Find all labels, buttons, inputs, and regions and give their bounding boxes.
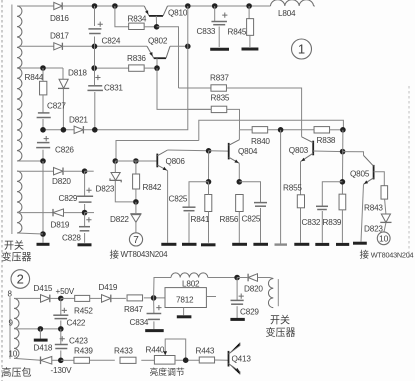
resistor R842 xyxy=(133,174,140,189)
terminal 10 circle xyxy=(377,232,390,245)
svg-text:C827: C827 xyxy=(47,102,66,111)
node row5 at D818 xyxy=(61,127,67,133)
resistor R847 xyxy=(127,295,143,301)
svg-text:1: 1 xyxy=(298,42,305,57)
wire D820 to node xyxy=(63,170,85,172)
svg-text:C826: C826 xyxy=(55,146,74,155)
svg-text:R839: R839 xyxy=(323,218,342,227)
resistor R837 xyxy=(211,85,227,91)
wire C832 bottom xyxy=(321,211,323,243)
svg-text:7: 7 xyxy=(133,235,139,246)
svg-text:2: 2 xyxy=(17,272,24,287)
svg-text:变压器: 变压器 xyxy=(266,326,296,339)
wire Q804 base rail down xyxy=(208,151,210,182)
svg-text:开关: 开关 xyxy=(4,239,24,252)
regulator U1 7812 box xyxy=(165,288,206,308)
wire D819 node stub right xyxy=(85,212,94,214)
resistor R844 xyxy=(40,81,47,95)
diode D823 (right) xyxy=(381,214,390,222)
wire C825a top xyxy=(189,182,209,207)
wire C824 bottom lead xyxy=(94,37,96,47)
svg-text:8: 8 xyxy=(8,289,13,298)
wire node280 down xyxy=(280,130,282,244)
wire rail2 D817 to Q802 xyxy=(62,45,147,47)
resistor R838 xyxy=(314,127,330,133)
wire C827 bottom lead xyxy=(42,119,44,130)
node +50V xyxy=(58,296,64,302)
svg-text:D415: D415 xyxy=(34,284,53,293)
wire C833 top lead xyxy=(214,6,216,21)
diode D820 xyxy=(54,168,64,175)
wire T1 winding1 end xyxy=(17,160,43,162)
capacitor C829 xyxy=(77,195,93,197)
node D823 top xyxy=(113,158,119,164)
ground under 7812 xyxy=(177,315,192,318)
node rail2 at vertical rail xyxy=(185,44,191,50)
wire R834 left xyxy=(115,6,129,27)
node top rail at R845 xyxy=(246,3,252,9)
transformer T1 winding lower xyxy=(17,171,22,233)
wire rail2 left xyxy=(19,45,54,47)
resistor R839 xyxy=(339,194,346,210)
wire C824 top lead xyxy=(94,6,96,26)
wire C829b bottom lead xyxy=(236,306,238,318)
node x343 y182 xyxy=(340,179,346,185)
wire Q810 base xyxy=(155,16,157,27)
wire R856 bottom lead xyxy=(238,212,240,243)
capacitor C828 xyxy=(79,226,90,228)
wire R836 right xyxy=(144,67,157,69)
node tap3 at R844 xyxy=(40,65,46,71)
wire C828 bottom lead xyxy=(84,233,86,243)
wire winding2 tap to D820 xyxy=(17,170,54,172)
wire node343 down xyxy=(341,130,344,194)
diode D816 xyxy=(54,2,62,9)
wire row5 right xyxy=(83,6,187,130)
wire R837 right to Q803 collector rail xyxy=(226,88,301,137)
transformer T1 core xyxy=(11,5,13,235)
wire D823b to terminal xyxy=(384,223,386,232)
wire R841 bottom lead xyxy=(208,212,210,243)
svg-text:7812: 7812 xyxy=(176,296,194,305)
wire C829 top lead xyxy=(84,171,86,196)
svg-text:D419: D419 xyxy=(99,283,118,292)
wire R439 to R433 xyxy=(90,359,115,361)
svg-text:D817: D817 xyxy=(50,32,69,41)
svg-text:9: 9 xyxy=(9,319,14,328)
wire top rail left xyxy=(17,5,54,7)
svg-text:R845: R845 xyxy=(228,28,247,37)
svg-text:D820: D820 xyxy=(52,177,71,186)
svg-text:R433: R433 xyxy=(114,347,133,356)
svg-text:Q806: Q806 xyxy=(166,157,186,166)
wire 7812 output stub xyxy=(206,296,216,298)
svg-text:R855: R855 xyxy=(283,184,302,193)
capacitor C834 xyxy=(147,313,162,315)
svg-text:C834: C834 xyxy=(130,318,149,327)
ground under C833 xyxy=(210,48,229,51)
diode D817 xyxy=(54,43,63,50)
node Q806 collector / Q804 base xyxy=(206,148,212,154)
wire tap3 xyxy=(19,67,63,69)
wire D418 to node xyxy=(52,359,61,361)
svg-text:C828: C828 xyxy=(62,234,81,243)
border frame xyxy=(1,0,3,381)
svg-text:D818: D818 xyxy=(68,69,87,78)
svg-text:亮度调节: 亮度调节 xyxy=(150,366,185,377)
capacitor C827 xyxy=(38,112,50,114)
wire Q802 base down to R835 row xyxy=(157,68,211,109)
inductor L802 xyxy=(171,273,208,278)
resistor R835 xyxy=(211,106,227,112)
wire R847 to node xyxy=(144,297,165,299)
node C422/C423 xyxy=(58,326,64,332)
node D819 / C828 xyxy=(82,210,88,216)
wire R834 right xyxy=(144,26,157,28)
resistor R843 xyxy=(381,186,388,199)
svg-text:C829: C829 xyxy=(59,194,78,203)
wire D822 top lead xyxy=(135,202,137,214)
svg-text:L802: L802 xyxy=(182,279,200,288)
wire Q804 base xyxy=(209,150,229,152)
wire C834 bottom lead xyxy=(153,321,155,329)
terminal 7 circle xyxy=(129,233,142,246)
wire L804 right stub xyxy=(314,5,316,7)
wire node to D820b xyxy=(237,277,248,279)
wire Q803 emitter down xyxy=(300,162,302,243)
ground under R856 xyxy=(232,243,247,246)
wire R844 to C827 xyxy=(42,95,44,113)
svg-text:Q804: Q804 xyxy=(238,147,258,156)
ground at pin9 (D418 bar) xyxy=(34,339,48,342)
wire R843 to D823b xyxy=(385,199,386,214)
transformer T1 winding upper xyxy=(17,6,22,161)
wire C833 bottom lead xyxy=(218,27,220,48)
svg-text:R856: R856 xyxy=(220,215,239,224)
wire R440 right xyxy=(175,359,199,361)
ground under R845 xyxy=(242,48,259,51)
wire R834 node to R837 rail xyxy=(157,27,179,88)
wire pin10 to D418 xyxy=(14,358,40,360)
node row5 at x43 xyxy=(40,127,46,133)
wire C828 top lead xyxy=(84,213,86,227)
wire 7812 ground stub xyxy=(183,308,185,316)
node C831 top / R836 xyxy=(91,65,97,71)
wire R837 left lead xyxy=(179,87,212,89)
wire Q805 emitter down xyxy=(361,184,364,241)
wire D820b to T3 xyxy=(258,278,274,279)
wire pin9 ground stub xyxy=(39,329,41,339)
zener D822 xyxy=(130,213,141,215)
capacitor C832 xyxy=(316,205,328,207)
wire Q806 collector xyxy=(168,149,209,152)
transistor Q803 xyxy=(312,141,314,156)
node x43 y161 xyxy=(40,158,46,164)
node R440/R443 xyxy=(183,357,189,363)
svg-text:R835: R835 xyxy=(211,94,230,103)
node Q810 base / R834 xyxy=(154,24,160,30)
transistor Q804 xyxy=(228,143,230,160)
arrow Q810 emitter xyxy=(145,10,148,14)
ground under x43 xyxy=(37,243,50,246)
svg-text:开关: 开关 xyxy=(270,314,290,327)
svg-text:C831: C831 xyxy=(104,84,123,93)
svg-text:Q803: Q803 xyxy=(289,146,309,155)
ground under R839 xyxy=(336,243,349,246)
svg-text:R452: R452 xyxy=(74,307,93,316)
node D820 / C829 xyxy=(82,168,88,174)
capacitor C825 a xyxy=(183,206,196,208)
svg-text:C422: C422 xyxy=(67,319,86,328)
wire L802 left riser xyxy=(154,278,171,298)
resistor R856 xyxy=(236,195,244,212)
wire row5 left xyxy=(43,129,74,131)
wire C825a bottom xyxy=(188,213,190,243)
arrow Q805 emitter xyxy=(364,180,368,184)
svg-text:R847: R847 xyxy=(124,305,143,314)
capacitor C825 b xyxy=(254,202,267,204)
zener D823 xyxy=(111,173,120,181)
wire C831 top lead xyxy=(94,46,96,85)
svg-text:C832: C832 xyxy=(302,218,321,227)
svg-text:+50V: +50V xyxy=(56,287,75,296)
wire Q805 collector wire xyxy=(343,152,364,156)
svg-text:R443: R443 xyxy=(196,347,215,356)
svg-text:WT8043N204: WT8043N204 xyxy=(371,251,414,260)
svg-text:C824: C824 xyxy=(102,37,121,46)
wire C829b top lead xyxy=(236,278,238,301)
wire C423 top lead xyxy=(60,329,62,344)
resistor R840 xyxy=(252,127,268,133)
wire D419 to R847 xyxy=(111,297,126,299)
wire Q805 base right xyxy=(374,172,385,186)
wire D818 bottom lead xyxy=(62,89,64,130)
node R842 top xyxy=(133,158,139,164)
wire L802 to node xyxy=(208,277,237,279)
wire D823 top lead xyxy=(114,161,116,173)
wire R433 to R440 xyxy=(141,359,154,361)
diode D821 xyxy=(74,126,83,133)
wire D823 bottom lead xyxy=(115,181,136,202)
svg-text:R841: R841 xyxy=(191,215,210,224)
node pin9 ground xyxy=(38,326,44,332)
svg-text:D819: D819 xyxy=(51,221,70,230)
wire C826 bottom lead xyxy=(42,150,44,161)
node rail2 at C824 xyxy=(92,44,98,50)
node x43 y234 xyxy=(40,231,46,237)
wire R845 bottom lead xyxy=(249,35,251,47)
node D822 top xyxy=(133,199,139,205)
diode D415 xyxy=(41,295,50,303)
terminal 2 circle xyxy=(11,270,30,289)
wire T1 winding2 end xyxy=(17,233,43,234)
ground under C832 xyxy=(315,243,329,246)
arrow Q804 emitter xyxy=(234,160,238,163)
svg-text:C423: C423 xyxy=(69,337,88,346)
node top rail at C824 xyxy=(92,3,98,9)
ground under C828 xyxy=(78,243,92,246)
transformer T2 winding xyxy=(14,298,19,358)
wire loop y120 xyxy=(199,120,344,140)
wire D415 to node xyxy=(50,297,61,299)
inductor L804 xyxy=(271,0,314,6)
capacitor C833 xyxy=(211,21,227,23)
diode D418 (series) xyxy=(41,357,52,365)
wire Q804 emitter down xyxy=(238,163,240,182)
capacitor C824 xyxy=(88,28,101,30)
svg-text:C825: C825 xyxy=(169,195,188,204)
ground under R855 xyxy=(294,243,309,246)
wire R842 top lead xyxy=(135,161,137,174)
svg-text:D822: D822 xyxy=(110,215,129,224)
resistor R452 xyxy=(75,295,90,301)
wire top rail Q810 to L804 xyxy=(168,5,271,7)
wire D819 to node xyxy=(64,212,85,214)
wire C831 bottom lead xyxy=(94,92,96,130)
wire C825b top xyxy=(239,182,260,203)
svg-text:10: 10 xyxy=(9,350,18,359)
svg-text:C825: C825 xyxy=(242,215,261,224)
svg-text:Q810: Q810 xyxy=(168,9,188,18)
node R836 / Q802 base xyxy=(154,65,160,71)
capacitor C831 xyxy=(88,85,102,87)
wire Q804 collector up xyxy=(238,130,240,140)
diode D419 xyxy=(102,295,111,303)
wire C825b bottom xyxy=(260,208,262,243)
wire R844 top lead xyxy=(42,68,44,81)
svg-text:D823: D823 xyxy=(96,185,115,194)
node top rail at Q802 collector rail xyxy=(185,3,191,9)
svg-text:D418: D418 xyxy=(34,344,53,353)
resistor R443 xyxy=(199,357,214,363)
transistor Q806 xyxy=(156,154,158,168)
resistor R439 xyxy=(74,357,90,363)
wire pin9 row xyxy=(14,328,61,330)
node L802 / C829b xyxy=(234,275,240,281)
wire rail2 Q802 to node xyxy=(170,45,188,47)
wire pin8 to D415 xyxy=(14,297,40,299)
wire x43 down xyxy=(42,161,44,243)
svg-text:R840: R840 xyxy=(251,137,270,146)
wire Q802 base xyxy=(156,58,158,68)
wire C422 bottom lead xyxy=(60,321,62,329)
wire R842 bottom lead xyxy=(135,189,137,202)
node -130V xyxy=(58,358,64,364)
svg-text:L804: L804 xyxy=(278,9,296,18)
svg-text:R838: R838 xyxy=(317,136,336,145)
transistor Q413 xyxy=(228,351,230,367)
ground under C825 b xyxy=(253,243,268,246)
wire C829 bottom lead xyxy=(84,204,86,213)
svg-text:高压包: 高压包 xyxy=(2,366,32,379)
capacitor C423 xyxy=(55,344,68,346)
wire R841 top lead xyxy=(208,182,210,195)
transistor Q810 xyxy=(144,6,149,16)
resistor R433 xyxy=(120,357,136,363)
svg-text:接: 接 xyxy=(110,249,120,261)
arrow Q802 emitter xyxy=(149,52,152,56)
wire D820 node stub right xyxy=(85,170,94,172)
wire R840 rail xyxy=(240,129,252,131)
capacitor C826 xyxy=(37,142,50,144)
svg-text:WT8043N204: WT8043N204 xyxy=(121,250,169,259)
wire Q803 base xyxy=(313,150,342,153)
resistor R841 xyxy=(205,195,212,212)
potentiometer R440 body xyxy=(154,356,175,365)
wire C422 top lead xyxy=(60,298,62,315)
wire R443 to Q413 xyxy=(215,359,228,361)
wire C832 top xyxy=(322,182,342,206)
transformer T3 winding xyxy=(268,279,273,308)
svg-text:R836: R836 xyxy=(127,54,146,63)
wire C834 top lead xyxy=(153,298,155,313)
svg-text:-130V: -130V xyxy=(51,366,73,375)
node R840 right xyxy=(278,127,284,133)
wire R440 wiper path xyxy=(165,339,186,360)
wire base row y161 xyxy=(115,160,157,162)
transistor Q802 xyxy=(147,46,154,58)
svg-text:D816: D816 xyxy=(50,14,69,23)
node 7812 input xyxy=(151,295,157,301)
svg-text:Q802: Q802 xyxy=(148,37,168,46)
wire R452 to D419 xyxy=(90,297,102,299)
node R841 top xyxy=(206,179,212,185)
svg-text:R439: R439 xyxy=(74,347,93,356)
diode D819 xyxy=(53,209,64,216)
diode D818 xyxy=(59,79,68,88)
node Q803 base / Q805 collector xyxy=(340,149,346,155)
arrow R440 wiper xyxy=(163,351,167,355)
svg-text:R843: R843 xyxy=(364,204,383,213)
wire C423 bottom lead xyxy=(60,351,62,361)
resistor R845 xyxy=(247,19,254,36)
ground under Q805 emitter xyxy=(353,242,367,245)
wire R839 bottom lead xyxy=(341,210,343,243)
wire D818 top lead xyxy=(62,68,64,79)
wire rail188 tee to R835 row xyxy=(188,108,212,110)
svg-text:D820: D820 xyxy=(244,285,263,294)
svg-text:R834: R834 xyxy=(128,15,147,24)
wire R840 to R838 xyxy=(268,129,315,131)
svg-text:C833: C833 xyxy=(197,27,216,36)
wire node to R452 xyxy=(61,297,75,299)
svg-text:接: 接 xyxy=(360,249,370,261)
wire R845 top lead xyxy=(248,6,250,19)
wire loop y140 to Q806 node xyxy=(116,141,199,162)
svg-text:R842: R842 xyxy=(143,183,162,192)
svg-text:R440: R440 xyxy=(146,346,165,355)
svg-text:Q805: Q805 xyxy=(350,170,370,179)
ground under Q806 emitter xyxy=(161,243,176,246)
ground under node280 line xyxy=(275,243,288,245)
ground under R841 xyxy=(201,243,216,246)
wire R835 right down to R840 rail xyxy=(227,109,240,129)
diode D820 (bottom) xyxy=(248,274,257,282)
resistor R836 xyxy=(129,65,145,71)
ground under C825 a xyxy=(182,243,197,246)
terminal 1 circle xyxy=(292,39,312,59)
svg-text:R837: R837 xyxy=(210,74,229,83)
svg-text:C829: C829 xyxy=(240,308,259,317)
node top rail at C833 xyxy=(212,3,218,9)
wire Q806 emitter down xyxy=(167,171,169,243)
node Q804 emitter / R856 xyxy=(237,179,243,185)
arrow Q803 emitter xyxy=(301,158,305,162)
wire R836 left xyxy=(94,67,129,69)
capacitor C829 b xyxy=(231,299,244,301)
svg-text:Q413: Q413 xyxy=(232,355,252,364)
svg-text:R844: R844 xyxy=(25,73,44,82)
